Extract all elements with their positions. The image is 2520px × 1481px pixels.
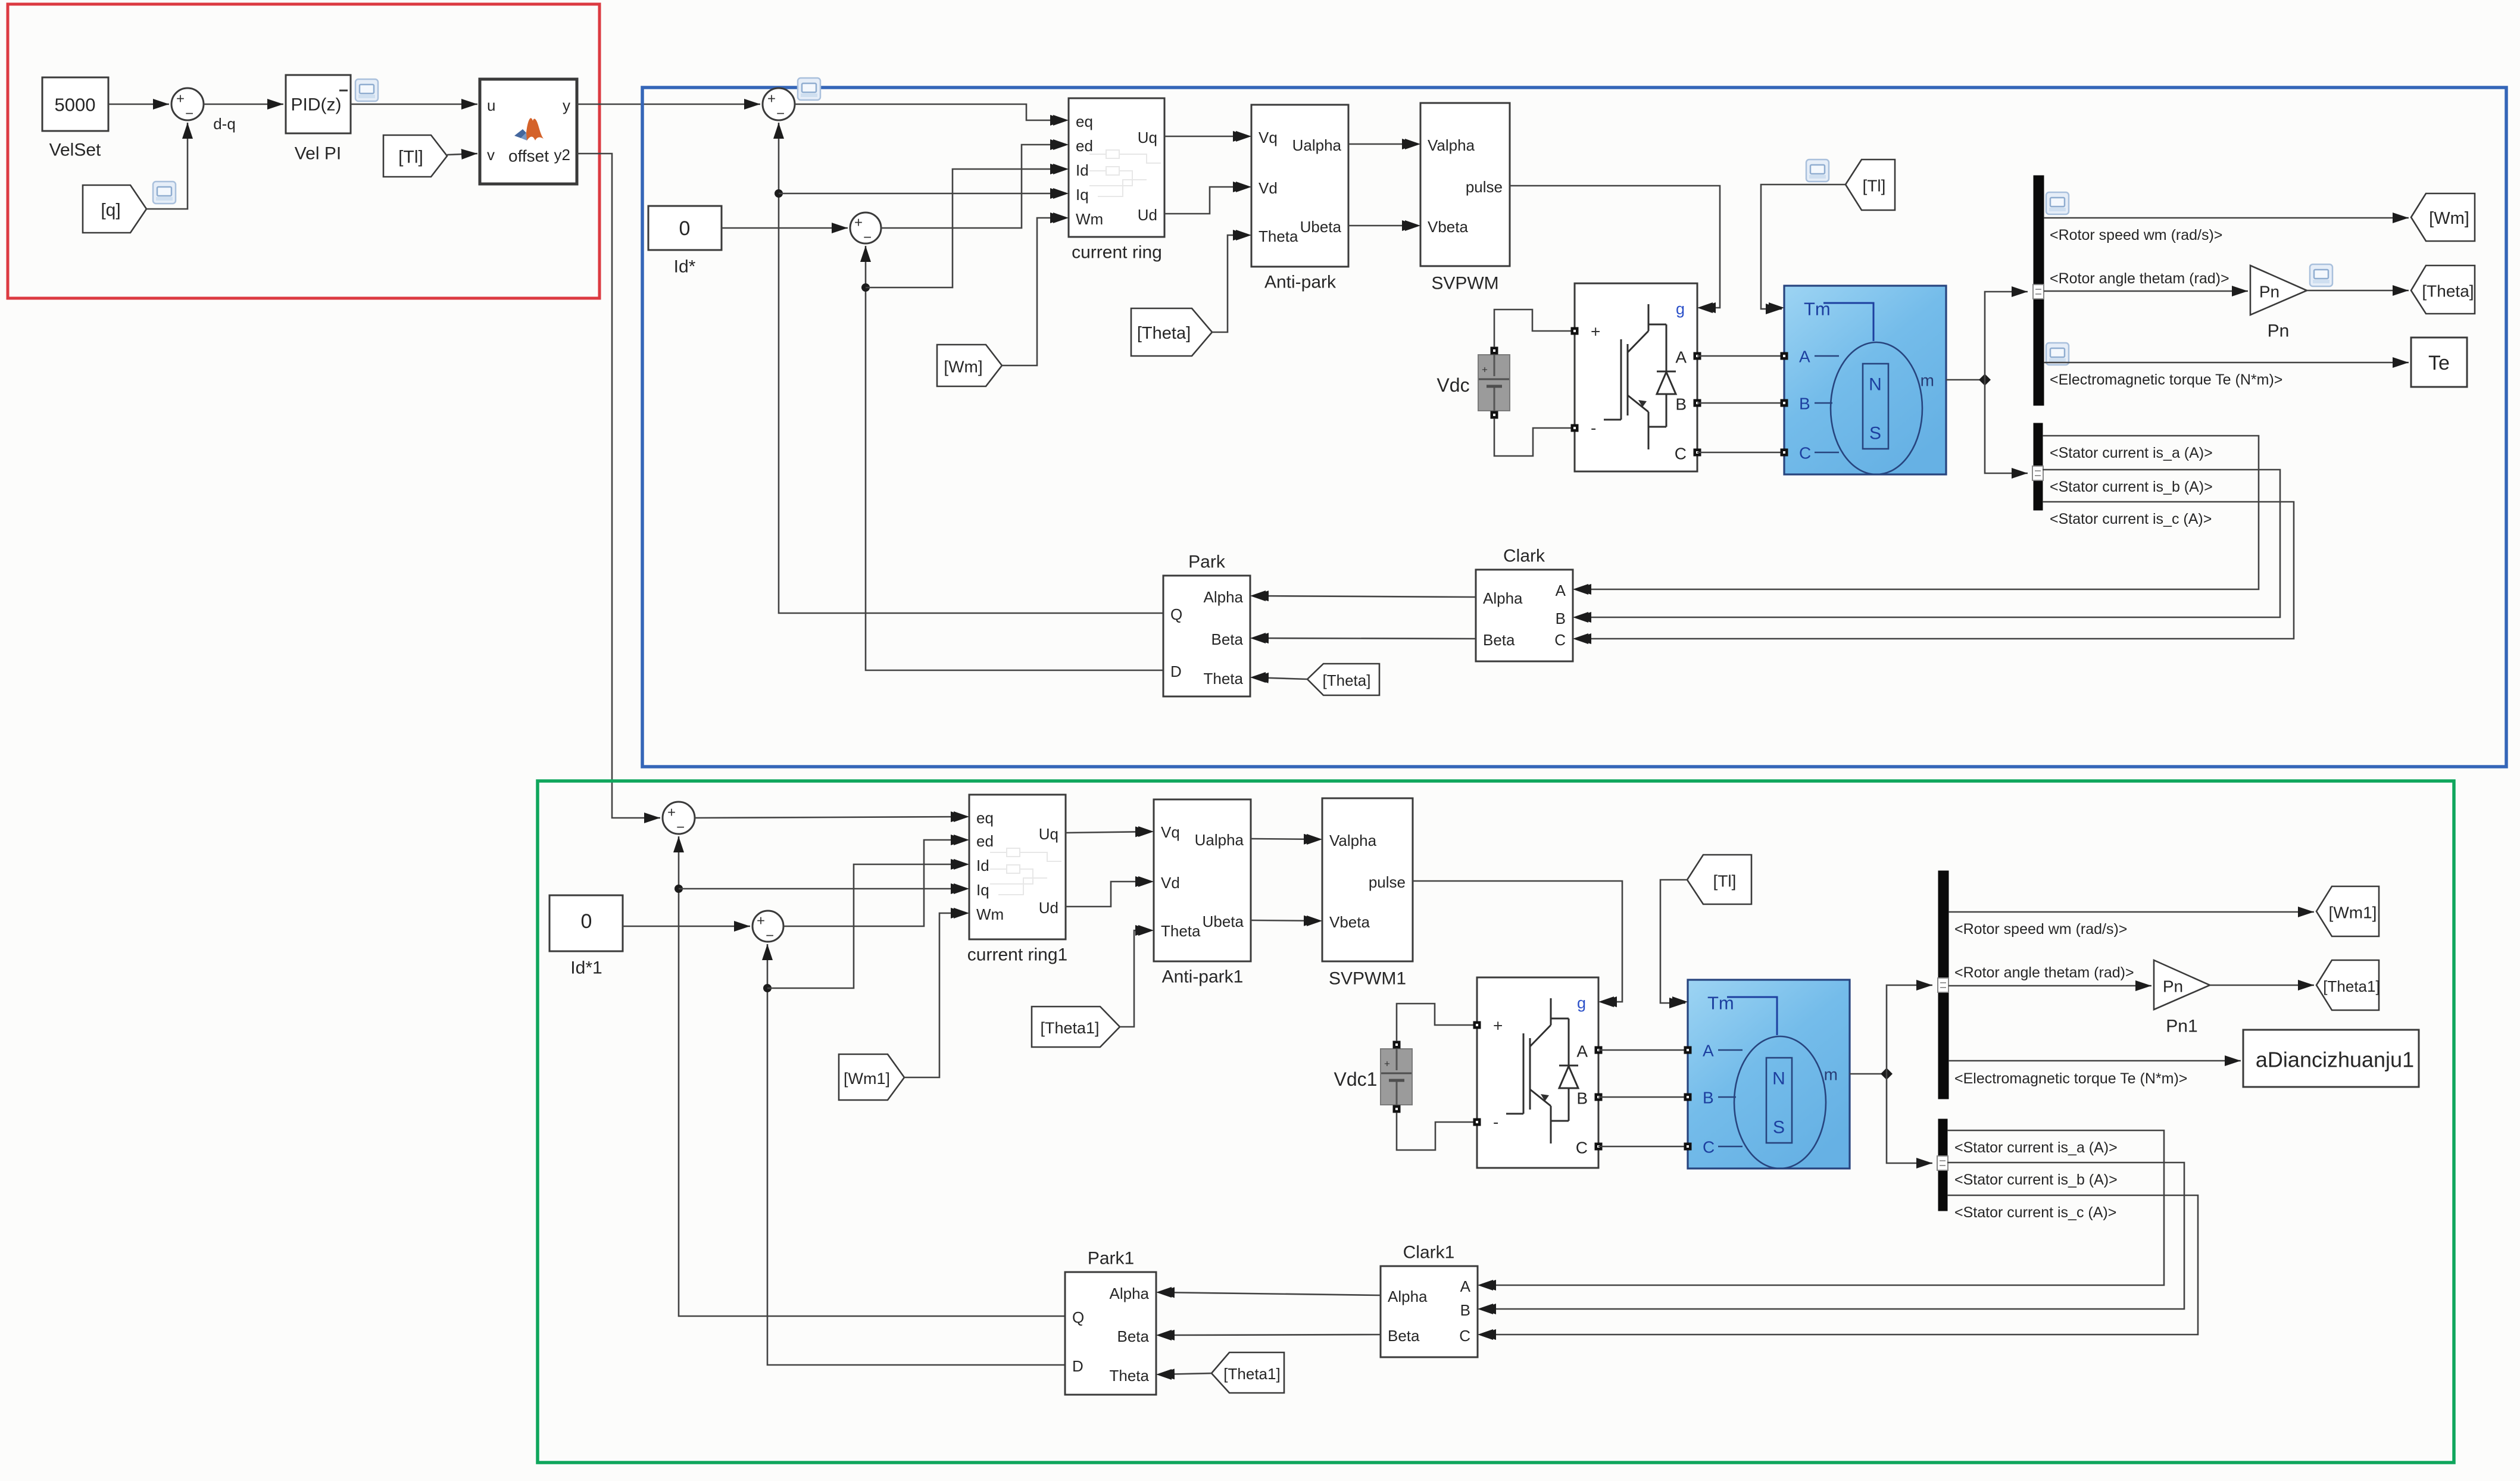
svg-text:Id: Id xyxy=(976,857,989,874)
svg-text:Valpha: Valpha xyxy=(1428,136,1475,154)
sum Sum1 xyxy=(171,88,204,120)
svg-text:VelSet: VelSet xyxy=(49,140,101,160)
subsystem Anti-park1 xyxy=(1154,799,1251,961)
from tag [Wm1] xyxy=(839,1054,904,1100)
wire Vdc plus to inverter plus xyxy=(1494,310,1572,347)
junction on Iq1 feedback xyxy=(675,885,683,893)
wire stator current is_b to Clark.B xyxy=(1575,470,2280,617)
wire Pn1 to goto [Theta1] xyxy=(2210,985,2314,986)
svg-text:y2: y2 xyxy=(554,146,570,164)
svg-text:ed: ed xyxy=(1076,137,1093,155)
wire bus3 to gain Pn1 xyxy=(1948,985,2151,987)
svg-text:+: + xyxy=(1591,323,1600,341)
subsystem SVPWM xyxy=(1420,103,1510,266)
wire bus1 to gain Pn xyxy=(2044,290,2248,292)
MATLAB function block offset xyxy=(480,79,577,184)
svg-text:Wm: Wm xyxy=(976,905,1004,923)
svg-text:<Stator current is_a (A)>: <Stator current is_a (A)> xyxy=(1954,1139,2118,1156)
scope icon next to [Tl] (blue region) xyxy=(1806,160,1829,182)
svg-text:+: + xyxy=(1493,1017,1503,1035)
svg-text:current ring: current ring xyxy=(1072,243,1162,263)
subsystem Park1 xyxy=(1065,1272,1156,1395)
svg-text:5000: 5000 xyxy=(55,95,96,115)
from tag [Tl] (green region, to motor1 Tm) xyxy=(1687,855,1751,904)
svg-text:[Tl]: [Tl] xyxy=(1863,177,1886,195)
svg-text:+: + xyxy=(854,215,863,231)
wire [Wm] to current ring.Wm xyxy=(1002,218,1066,365)
svg-text:[Theta]: [Theta] xyxy=(2422,282,2474,301)
svg-text:B: B xyxy=(1675,395,1687,414)
bus selector 4 (stator currents, motor1) xyxy=(1938,1119,1947,1211)
svg-text:Anti-park1: Anti-park1 xyxy=(1162,967,1244,987)
constant VelSet (5000) xyxy=(42,77,108,131)
svg-text:Theta: Theta xyxy=(1110,1367,1150,1385)
svg-text:-: - xyxy=(1493,1113,1498,1132)
wire Anti-park.Ualpha to SVPWM.Valpha xyxy=(1348,143,1418,145)
wire Clark.Alpha to Park.Alpha xyxy=(1253,596,1476,597)
wire [Wm1] to current ring1.Wm xyxy=(904,913,967,1077)
svg-text:PID(z): PID(z) xyxy=(291,95,342,115)
svg-text:Ud: Ud xyxy=(1138,206,1157,224)
wire bus1 to outport Te xyxy=(2044,362,2409,364)
from tag [Tl] (red region) xyxy=(383,135,447,177)
svg-text:[Theta1]: [Theta1] xyxy=(2323,977,2380,995)
svg-text:Vbeta: Vbeta xyxy=(1428,218,1468,236)
from tag [Theta1] (to Park1) xyxy=(1211,1352,1284,1393)
wire Clark1.Beta to Park1.Beta xyxy=(1158,1335,1381,1335)
bus selector 1 (mechanical signals) xyxy=(2034,176,2044,405)
svg-text:Beta: Beta xyxy=(1211,630,1244,648)
wire Id*1 to Sum5 xyxy=(623,926,750,927)
svg-text:+: + xyxy=(757,913,765,929)
svg-text:m: m xyxy=(1921,371,1934,390)
svg-text:<Rotor angle thetam (rad)>: <Rotor angle thetam (rad)> xyxy=(2050,270,2229,287)
bus selector 2 (stator currents) xyxy=(2034,423,2043,510)
svg-text:pulse: pulse xyxy=(1466,178,1503,196)
svg-text:+: + xyxy=(1384,1058,1390,1070)
svg-text:Valpha: Valpha xyxy=(1329,832,1377,849)
PID controller Vel PI xyxy=(286,75,351,133)
junction at motor.m xyxy=(1979,374,1991,386)
svg-text:C: C xyxy=(1576,1139,1588,1157)
svg-text:A: A xyxy=(1460,1277,1471,1295)
svg-text:Alpha: Alpha xyxy=(1110,1285,1150,1302)
svg-text:Theta: Theta xyxy=(1161,922,1201,940)
sum Sum2 xyxy=(763,88,795,120)
svg-text:Alpha: Alpha xyxy=(1388,1288,1428,1305)
wire offset.y to Sum2 xyxy=(577,104,760,105)
wire Park1.D feedback to Sum5 minus xyxy=(767,944,1065,1365)
wire inverter.B to motor.B xyxy=(1697,402,1784,404)
svg-text:Uq: Uq xyxy=(1039,825,1058,843)
wire [Theta1] to Park1.Theta xyxy=(1158,1373,1211,1374)
wire motor.m to junction xyxy=(1946,379,1985,381)
svg-text:A: A xyxy=(1576,1042,1588,1061)
wire Sum5 to current ring1.ed xyxy=(783,840,967,926)
inverter1 bridge (IGBT/Diode) xyxy=(1477,977,1598,1168)
from tag [Theta] (blue region, to Anti-park) xyxy=(1131,308,1212,356)
svg-text:Ualpha: Ualpha xyxy=(1195,831,1244,849)
junction on Id feedback xyxy=(861,283,870,292)
subsystem Clark1 xyxy=(1381,1266,1478,1357)
wire Pn to goto [Theta] xyxy=(2307,290,2409,292)
blue boundary box (first motor drive) xyxy=(642,88,2506,767)
svg-text:Park: Park xyxy=(1188,552,1226,572)
wire Vel PI to offset.u xyxy=(351,104,477,105)
wire junction to Bus Selector 4 xyxy=(1887,1074,1932,1163)
svg-text:N: N xyxy=(1772,1069,1785,1089)
svg-text:<Rotor angle thetam (rad)>: <Rotor angle thetam (rad)> xyxy=(1954,964,2134,981)
gain Pn xyxy=(2250,265,2307,315)
svg-text:Vel PI: Vel PI xyxy=(295,144,341,164)
svg-text:<Stator current is_b (A)>: <Stator current is_b (A)> xyxy=(2050,479,2213,495)
from tag [Tl] (blue region, to motor Tm) xyxy=(1845,160,1895,210)
svg-text:u: u xyxy=(487,96,495,114)
svg-text:Anti-park: Anti-park xyxy=(1264,273,1336,292)
wire inverter.C to motor.C xyxy=(1697,452,1784,454)
svg-text:m: m xyxy=(1824,1066,1838,1084)
svg-text:Pn: Pn xyxy=(2163,977,2183,996)
wire offset.y2 to Sum4 (long drop) xyxy=(577,154,660,818)
svg-text:Id: Id xyxy=(1076,161,1089,179)
from tag [Theta] (to Park) xyxy=(1307,664,1379,695)
wire Sum1 to Vel PI xyxy=(204,104,283,105)
PMSM motor1 block xyxy=(1688,980,1850,1168)
svg-text:D: D xyxy=(1170,663,1182,680)
svg-text:Ubeta: Ubeta xyxy=(1203,913,1244,930)
svg-text:[Tl]: [Tl] xyxy=(1713,872,1737,891)
svg-text:[Theta]: [Theta] xyxy=(1323,671,1371,689)
wire Anti-park1.Ubeta to SVPWM1.Vbeta xyxy=(1251,920,1320,921)
goto tag [Theta] xyxy=(2411,265,2475,314)
svg-text:Tm: Tm xyxy=(1707,993,1734,1014)
wire junction to current ring.Iq xyxy=(779,193,1066,195)
svg-text:Ubeta: Ubeta xyxy=(1300,218,1342,236)
svg-text:Vq: Vq xyxy=(1259,129,1278,146)
svg-text:Iq: Iq xyxy=(1076,186,1089,204)
svg-text:SVPWM: SVPWM xyxy=(1431,274,1498,293)
svg-text:Park1: Park1 xyxy=(1088,1249,1134,1268)
wire stator current is_b to Clark1.B xyxy=(1480,1163,2184,1309)
svg-text:Id*1: Id*1 xyxy=(570,958,602,978)
svg-text:eq: eq xyxy=(976,809,994,827)
wire Park.Q feedback to Sum2 minus xyxy=(779,123,1163,613)
wire [Tl] to motor.Tm xyxy=(1761,185,1845,309)
svg-text:[Wm1]: [Wm1] xyxy=(844,1070,890,1088)
wire stator current is_c to Clark1.C xyxy=(1480,1195,2198,1335)
bus selector 3 (mechanical signals, motor1) xyxy=(1938,871,1948,1099)
scope icon on rotor speed wire xyxy=(2046,192,2069,214)
svg-text:<Stator current is_c (A)>: <Stator current is_c (A)> xyxy=(2050,511,2212,527)
constant Id*1 (0) xyxy=(549,895,623,951)
svg-text:A: A xyxy=(1703,1042,1714,1060)
wire SVPWM1.pulse to inverter1.g xyxy=(1413,881,1622,1002)
svg-text:Beta: Beta xyxy=(1483,631,1515,649)
wire VelSet to Sum1 xyxy=(108,104,169,105)
wire Vdc1 minus to inverter1 minus xyxy=(1397,1113,1475,1150)
svg-text:C: C xyxy=(1459,1327,1470,1345)
wire bus1 to goto [Wm] xyxy=(2044,217,2409,219)
svg-text:[Wm]: [Wm] xyxy=(2429,209,2469,228)
svg-text:Beta: Beta xyxy=(1117,1327,1150,1345)
svg-text:−: − xyxy=(863,230,872,246)
wire Clark.Beta to Park.Beta xyxy=(1253,638,1476,639)
green boundary box (second motor drive) xyxy=(538,781,2454,1463)
wire Park.D feedback to Sum3 minus xyxy=(866,246,1163,670)
outport aDiancizhuanju1 xyxy=(2243,1030,2419,1087)
svg-text:Vq: Vq xyxy=(1161,823,1180,841)
svg-text:g: g xyxy=(1676,300,1685,318)
subsystem current ring1 xyxy=(969,795,1066,939)
svg-text:eq: eq xyxy=(1076,113,1093,130)
wire [Tl] to offset.v xyxy=(447,154,477,155)
wire stator current is_c to Clark.C xyxy=(1575,502,2294,639)
svg-text:Vd: Vd xyxy=(1259,179,1278,197)
wire Anti-park1.Ualpha to SVPWM1.Valpha xyxy=(1251,839,1320,839)
wire Sum2 to current ring.eq xyxy=(795,104,1066,120)
svg-text:−: − xyxy=(676,820,685,836)
subsystem current ring xyxy=(1069,98,1164,237)
svg-text:Te: Te xyxy=(2428,352,2450,374)
svg-text:−: − xyxy=(776,106,785,122)
svg-text:<Rotor speed wm (rad/s)>: <Rotor speed wm (rad/s)> xyxy=(1954,921,2127,938)
svg-text:−: − xyxy=(185,106,193,122)
svg-text:d-q: d-q xyxy=(213,115,236,133)
svg-text:Clark1: Clark1 xyxy=(1403,1243,1455,1263)
svg-text:offset: offset xyxy=(508,147,549,165)
svg-text:[Theta1]: [Theta1] xyxy=(1040,1019,1099,1037)
wire current ring1.Uq to Anti-park1.Vq xyxy=(1066,832,1151,833)
svg-text:Q: Q xyxy=(1072,1308,1084,1326)
sum Sum4 xyxy=(663,802,695,834)
svg-text:Vdc1: Vdc1 xyxy=(1334,1068,1378,1090)
wire inverter1.C to motor1.C xyxy=(1598,1146,1688,1148)
inverter bridge (IGBT/Diode) xyxy=(1575,283,1697,471)
svg-text:Alpha: Alpha xyxy=(1483,589,1523,607)
svg-text:[Tl]: [Tl] xyxy=(398,148,423,167)
wire Park1.Q feedback to Sum4 minus xyxy=(679,836,1065,1316)
svg-text:C: C xyxy=(1703,1138,1715,1157)
svg-text:Clark: Clark xyxy=(1503,546,1545,566)
svg-text:Alpha: Alpha xyxy=(1204,588,1244,606)
svg-text:[Theta1]: [Theta1] xyxy=(1223,1365,1280,1383)
junction at motor1.m xyxy=(1881,1068,1893,1080)
svg-text:N: N xyxy=(1869,375,1882,395)
svg-text:[Theta]: [Theta] xyxy=(1137,324,1191,343)
scope icon next to [q] xyxy=(153,182,176,204)
svg-text:A: A xyxy=(1556,582,1566,599)
wire current ring.Ud to Anti-park.Vd xyxy=(1164,187,1249,214)
wire Anti-park.Ubeta to SVPWM.Vbeta xyxy=(1348,225,1418,227)
svg-text:Pn: Pn xyxy=(2268,321,2290,341)
svg-text:[Wm1]: [Wm1] xyxy=(2329,904,2377,922)
svg-text:Q: Q xyxy=(1170,605,1182,623)
svg-text:B: B xyxy=(1703,1089,1714,1107)
wire bus3 to aDiancizhuanju1 xyxy=(1948,1060,2241,1062)
svg-text:<Electromagnetic torque Te (N*: <Electromagnetic torque Te (N*m)> xyxy=(2050,371,2282,388)
svg-text:<Stator current is_a (A)>: <Stator current is_a (A)> xyxy=(2050,445,2213,461)
svg-text:+: + xyxy=(667,805,676,821)
svg-text:-: - xyxy=(1591,419,1596,438)
subsystem SVPWM1 xyxy=(1322,798,1413,961)
svg-text:C: C xyxy=(1675,445,1687,463)
svg-text:SVPWM1: SVPWM1 xyxy=(1329,969,1406,989)
wire junction to current ring1.Id xyxy=(767,864,967,988)
svg-text:0: 0 xyxy=(679,217,691,240)
svg-text:B: B xyxy=(1556,610,1566,627)
wire current ring.Uq to Anti-park.Vq xyxy=(1164,136,1249,138)
wire stator current is_a to Clark1.A xyxy=(1480,1130,2164,1285)
svg-text:A: A xyxy=(1675,348,1687,367)
from tag [Theta1] (to Anti-park1) xyxy=(1032,1007,1120,1047)
svg-text:+: + xyxy=(176,91,185,107)
constant Id* (0) xyxy=(648,206,722,250)
scope icon above Sum2 xyxy=(798,78,820,100)
from tag [q] xyxy=(83,185,146,233)
wire Clark1.Alpha to Park1.Alpha xyxy=(1158,1292,1381,1295)
svg-text:Wm: Wm xyxy=(1076,210,1103,228)
svg-text:Pn: Pn xyxy=(2259,283,2279,301)
svg-text:Beta: Beta xyxy=(1388,1327,1420,1345)
svg-text:current ring1: current ring1 xyxy=(967,945,1067,965)
svg-text:Theta: Theta xyxy=(1204,670,1244,688)
wire stator current is_a to Clark.A xyxy=(1575,436,2259,589)
port input arrows for subsystem blocks xyxy=(954,115,1784,1380)
wire [Tl] to motor1.Tm xyxy=(1660,880,1687,1003)
svg-text:A: A xyxy=(1799,348,1810,366)
wire motor1.m to junction xyxy=(1850,1073,1887,1075)
wire junction to Bus Selector 2 xyxy=(1985,380,2028,473)
sum Sum5 xyxy=(752,911,783,942)
svg-text:C: C xyxy=(1799,444,1811,463)
svg-text:+: + xyxy=(1482,364,1488,376)
svg-text:Vdc: Vdc xyxy=(1437,374,1469,396)
scope icon after gain Pn xyxy=(2310,264,2332,286)
wire [Theta1] to Anti-park1.Theta xyxy=(1120,930,1151,1027)
svg-text:+: + xyxy=(767,91,776,107)
svg-text:D: D xyxy=(1072,1357,1083,1375)
svg-text:Tm: Tm xyxy=(1804,299,1831,320)
goto tag [Wm] xyxy=(2411,193,2475,241)
wire current ring1.Ud to Anti-park1.Vd xyxy=(1066,882,1151,907)
svg-text:Ud: Ud xyxy=(1039,899,1058,917)
subsystem Anti-park xyxy=(1251,105,1348,267)
wire Vdc1 plus to inverter1 plus xyxy=(1397,1004,1475,1041)
svg-text:v: v xyxy=(487,146,495,164)
svg-text:<Electromagnetic torque Te (N*: <Electromagnetic torque Te (N*m)> xyxy=(1954,1070,2187,1087)
wire SVPWM.pulse to inverter.g xyxy=(1510,186,1720,308)
svg-text:B: B xyxy=(1799,395,1810,413)
goto tag [Theta1] xyxy=(2316,960,2379,1010)
wire Sum3 to current ring.ed xyxy=(881,145,1066,228)
wire junction to Bus Selector 3 xyxy=(1887,985,1932,1074)
junction on Iq feedback xyxy=(775,189,783,198)
red boundary box (speed loop area) xyxy=(8,4,599,298)
svg-text:C: C xyxy=(1554,631,1566,649)
wire junction to current ring.Id xyxy=(866,169,1066,288)
svg-text:<Stator current is_c (A)>: <Stator current is_c (A)> xyxy=(1954,1204,2116,1221)
wire inverter.A to motor.A xyxy=(1697,355,1784,357)
junction on Id1 feedback xyxy=(763,984,772,992)
svg-text:Id*: Id* xyxy=(674,257,696,277)
svg-text:Pn1: Pn1 xyxy=(2166,1017,2197,1036)
svg-text:[q]: [q] xyxy=(101,201,120,220)
svg-text:g: g xyxy=(1577,994,1586,1012)
svg-text:ed: ed xyxy=(976,832,994,850)
goto tag [Wm1] xyxy=(2316,886,2379,936)
scope icon on torque wire xyxy=(2046,343,2069,365)
wire [Theta] to Anti-park.Theta xyxy=(1212,235,1249,332)
svg-text:Vd: Vd xyxy=(1161,874,1180,892)
wire junction to current ring1.Iq xyxy=(679,888,967,890)
svg-text:pulse: pulse xyxy=(1369,873,1406,891)
svg-text:<Rotor speed wm (rad/s)>: <Rotor speed wm (rad/s)> xyxy=(2050,227,2222,243)
svg-text:S: S xyxy=(1869,424,1881,443)
svg-text:Theta: Theta xyxy=(1259,227,1298,245)
wire bus3 to goto [Wm1] xyxy=(1948,911,2314,913)
svg-text:<Stator current is_b (A)>: <Stator current is_b (A)> xyxy=(1954,1171,2118,1188)
svg-text:B: B xyxy=(1460,1301,1470,1319)
wire Sum4 to current ring1.eq xyxy=(695,817,967,818)
wire [q] to Sum1 minus xyxy=(146,123,188,209)
wire Vdc minus to inverter minus xyxy=(1494,418,1572,456)
subsystem Clark xyxy=(1476,570,1573,661)
wire inverter1.B to motor1.B xyxy=(1598,1096,1688,1098)
wire [Theta] to Park.Theta xyxy=(1253,677,1307,679)
svg-text:Iq: Iq xyxy=(976,881,989,899)
svg-text:0: 0 xyxy=(581,910,592,933)
svg-text:B: B xyxy=(1576,1089,1588,1108)
scope icon next to Vel PI xyxy=(355,79,378,101)
svg-text:aDiancizhuanju1: aDiancizhuanju1 xyxy=(2256,1048,2414,1072)
wire Id* to Sum3 xyxy=(722,227,848,229)
svg-text:[Wm]: [Wm] xyxy=(944,358,982,376)
subsystem Park xyxy=(1163,576,1250,696)
wire inverter1.A to motor1.A xyxy=(1598,1049,1688,1051)
svg-text:−: − xyxy=(766,928,774,944)
sum Sum3 xyxy=(850,213,881,243)
from tag [Wm] (blue region) xyxy=(937,345,1002,386)
svg-text:Vbeta: Vbeta xyxy=(1329,913,1370,931)
wire junction to Bus Selector 1 xyxy=(1985,292,2028,380)
svg-text:S: S xyxy=(1773,1118,1785,1138)
outport Te xyxy=(2411,338,2467,387)
svg-text:y: y xyxy=(563,96,570,114)
gain Pn1 xyxy=(2154,960,2210,1010)
svg-text:Ualpha: Ualpha xyxy=(1292,136,1342,154)
PMSM motor block xyxy=(1784,286,1946,474)
svg-text:Uq: Uq xyxy=(1138,129,1157,146)
